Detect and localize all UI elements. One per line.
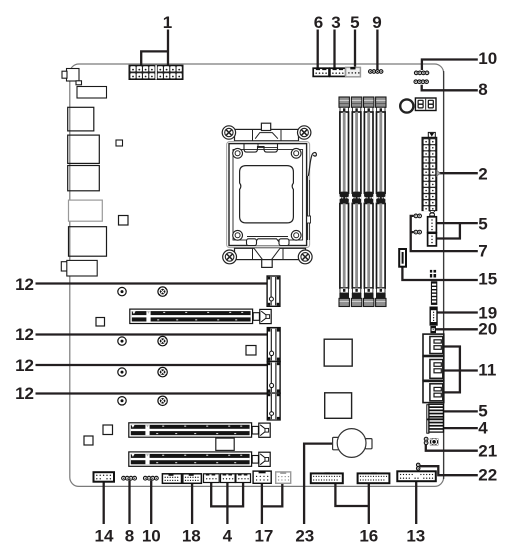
svg-text:14: 14 [95,527,114,546]
svg-text:11: 11 [478,361,496,380]
callout 12 d [36,392,268,394]
svg-text:21: 21 [478,442,497,461]
m.2 vertical connector 1 [267,276,280,306]
connector 17a [253,471,271,483]
m.2 screw row2 [158,336,167,345]
callout 6 [317,30,319,69]
svg-text:6: 6 [314,13,323,32]
callout 23 [304,444,333,524]
svg-text:8: 8 [478,80,487,99]
svg-text:17: 17 [254,527,273,546]
callout 9 [376,30,378,70]
back panel port A [68,107,94,131]
svg-text:12: 12 [15,384,34,403]
socket corner screw TL [233,148,243,158]
callout 13 [415,481,417,524]
jumper 10 bottom (4 pins) [143,476,158,480]
top bracket screw left [222,126,235,139]
small square chip e [103,425,113,435]
fan header 4c (bottom) [236,474,251,483]
socket main frame [229,144,307,246]
svg-text:1: 1 [163,13,172,32]
svg-text:8: 8 [125,527,134,546]
connector 18 [183,474,202,484]
callout 5 pair bracket [437,222,478,240]
front usb3 striped connector [431,281,437,305]
svg-text:10: 10 [142,527,161,546]
sata connector 11c [423,381,444,402]
connector 2 ATX 24-pin [422,132,440,214]
bottom retention bracket [235,248,306,259]
small square chip f [84,436,93,445]
svg-text:13: 13 [406,527,425,546]
chipset chip A [324,339,352,366]
striped connector 5 (lower right) [427,404,444,419]
socket corner screw BL [233,230,243,240]
bracket box below pcie slot 2 [216,438,234,450]
back panel port D (gray) [69,200,103,221]
svg-text:16: 16 [359,527,378,546]
jumper 8 bottom (4 pins) [122,476,137,480]
bottom bracket screw right [298,250,312,264]
fan header 5 (gray) [346,67,361,77]
back panel small component top-left [62,69,82,85]
2x2 pin block above front usb [430,270,436,278]
pcie x16 slot 3 [129,452,270,467]
pcie x16 slot 2 [129,423,270,438]
svg-text:3: 3 [331,13,340,32]
callout 20 [435,328,478,330]
cpu plate [240,166,294,223]
callout 19 [437,311,478,313]
jumper pair 7b [414,230,421,234]
board outline [70,64,444,486]
socket corner screw BR [291,230,301,240]
m.2 screw row3 [158,367,167,376]
qflash button [400,99,413,112]
small square chip a [116,140,123,146]
cpu socket U1 [222,123,316,267]
svg-text:22: 22 [478,466,497,485]
small square chip c [96,318,105,327]
back panel port C [68,166,100,191]
ddr slot 2 [351,97,361,307]
callout 10 top [422,60,478,71]
speaker/buzzer 21 [430,438,438,445]
callout 2 [439,172,478,174]
m.2 standoff row1 [118,287,126,295]
m.2 screw row1 [158,287,167,296]
m.2 standoff row4 [118,397,126,405]
callout 10 bottom [150,480,152,524]
socket lever [308,153,316,176]
callout 18 [191,483,193,524]
back panel port E [69,227,107,257]
jumper 9 (4 pins) [369,70,383,74]
socket bottom latch [253,239,283,246]
callout 21 [426,444,478,451]
striped connector 4 (lower right) [427,420,444,434]
socket outer gray frame [227,142,310,248]
header without callout (spi tpm) [162,474,181,484]
callout 15 [402,267,477,280]
usb header 16a [311,472,343,483]
ddr slot 4 [376,97,386,307]
svg-text:2: 2 [478,165,487,184]
fan header 4b (bottom) [221,474,236,483]
callout 1 [141,30,168,66]
svg-text:12: 12 [15,325,34,344]
svg-text:10: 10 [478,49,497,68]
callout 14 [103,482,105,525]
callout 16 bracket [335,483,368,524]
battery holder left clip [333,437,339,449]
callout 8 bottom [128,480,130,524]
connector 1 ATX_12V 2x8 power header [129,65,183,79]
socket top wings latch [244,144,278,153]
pcie x16 slot 1 [130,309,271,324]
svg-text:7: 7 [478,242,487,261]
callout 22 [420,466,478,475]
sata connector 11a [423,334,444,355]
callout 4 stripe [444,427,478,429]
callout 4 bottom bracket [211,482,243,524]
back panel port B [68,135,100,163]
fan header 4a (bottom) [204,474,220,483]
connector 13 [397,471,436,481]
usb header 16b [358,472,390,483]
chipset chip B [325,393,352,419]
sata connector 11b [423,357,444,381]
fan header SYS_FAN b (right) [428,233,437,246]
svg-text:15: 15 [478,270,497,289]
top retention bracket [235,129,299,140]
svg-text:20: 20 [478,320,497,339]
jumper 22 pins [416,463,420,470]
svg-text:9: 9 [372,13,381,32]
socket corner screw TR [291,148,301,158]
m.2 screw row4 [158,396,167,405]
callout 12 b [36,333,268,335]
callout 7 [411,215,478,251]
top bracket screw right [298,126,311,139]
callout 5 top [354,30,356,68]
svg-text:23: 23 [295,527,314,546]
bottom bracket screw left [223,250,237,264]
fan header SYS_FAN a (right) [428,217,437,233]
callout 17 bracket [262,483,282,524]
back panel rect (audio/usb block) [77,87,107,99]
fan header 3 [330,68,346,76]
connector 17b (gray) [276,472,291,483]
back panel port F [61,260,97,276]
jumper 8 top-right (4 pins) [414,80,428,84]
board right edge (darker) [443,71,445,479]
svg-text:12: 12 [15,275,34,294]
m.2 standoff row2 [118,337,126,345]
callout 5 stripe [444,410,478,412]
svg-text:5: 5 [350,13,359,32]
m.2 standoff row3 [118,368,126,376]
callout 3 [333,30,335,69]
m.2 vertical connector 4 [267,393,280,420]
callout 8 top [422,85,478,91]
connector 14 (f_audio) [94,472,115,482]
svg-text:18: 18 [182,527,201,546]
svg-text:4: 4 [478,419,488,438]
jumper pair 7a [414,214,421,218]
jumper 10 top-right (4 pins) [414,71,428,75]
fan header 6 [313,68,329,76]
battery 23 [337,429,366,458]
battery holder right clip [365,439,372,449]
svg-text:5: 5 [478,215,487,234]
svg-text:12: 12 [15,356,34,375]
connector 15 (noise sensor) [399,249,406,267]
debug LED display [415,98,436,111]
m.2 vertical connector 3 [267,362,280,394]
small square chip b [119,216,129,226]
ddr slot 1 [339,97,349,307]
connector 20 (2-pin) [431,327,435,333]
callout 11 bracket [444,345,478,393]
small square chip d [246,346,256,356]
jumper 21 pins [424,437,428,444]
callout 12 c [36,364,268,366]
connector 19 (usb-c header) [430,307,437,325]
m.2 vertical connector 2 [267,328,280,362]
callout 12 a [36,282,268,284]
fan header pair top tab [430,212,435,216]
ddr slot 3 [364,97,374,307]
svg-text:4: 4 [223,527,233,546]
